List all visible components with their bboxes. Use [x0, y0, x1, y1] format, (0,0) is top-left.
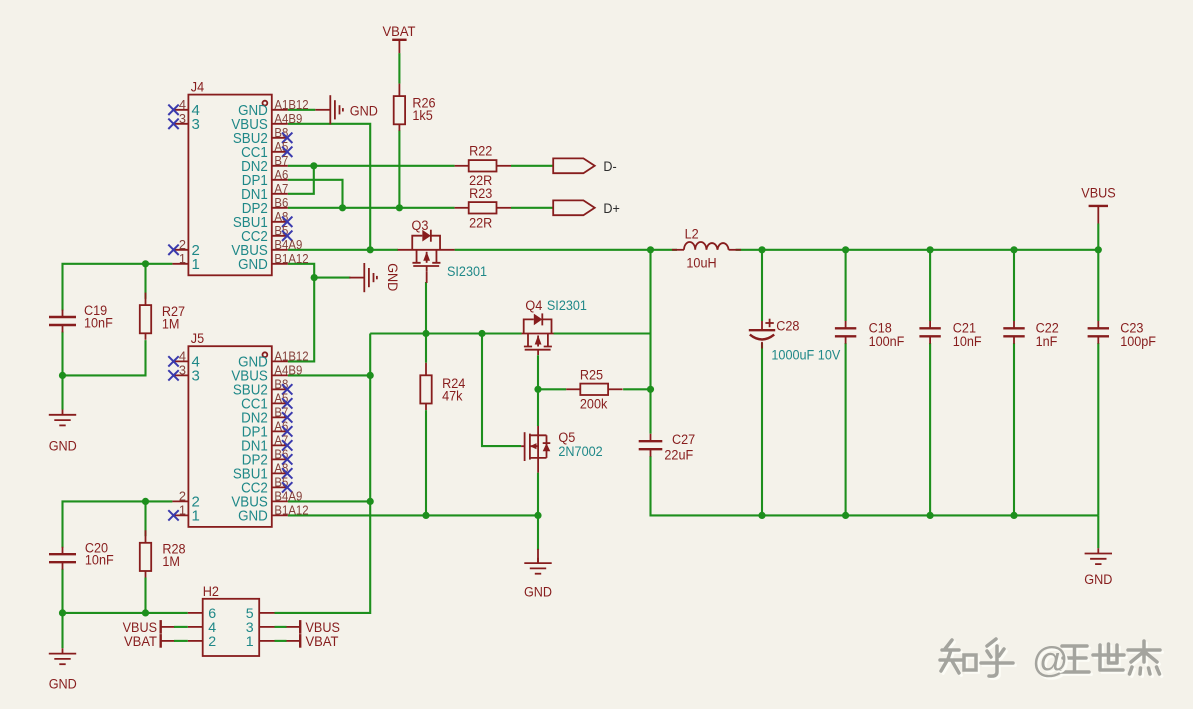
J5 pin A6 (DP1)	[242, 419, 293, 441]
J5 pin B8 (SBU2)	[233, 377, 293, 399]
wire D+ net : DP2 row to R23	[288, 207, 455, 209]
wire J4 A1B12 to GND symbol	[288, 109, 316, 111]
svg-text:D-: D-	[603, 159, 617, 175]
svg-text:2: 2	[179, 489, 186, 504]
J4 pin A5 (CC1)	[241, 139, 292, 161]
connector J4 body	[188, 79, 271, 275]
ground symbol below J4 (rotated)	[349, 263, 377, 292]
ground symbol under Q5	[537, 549, 539, 563]
junction	[59, 609, 66, 616]
H2 pin 6	[188, 606, 216, 622]
wire H2 pin2	[174, 640, 188, 642]
junction	[478, 330, 485, 337]
J5 pin A4B9 (VBUS)	[231, 363, 302, 385]
svg-text:22uF: 22uF	[664, 448, 693, 464]
wire capacitor column x=930.1 bottom	[929, 343, 931, 515]
svg-text:10nF: 10nF	[85, 553, 114, 569]
svg-text:100nF: 100nF	[869, 334, 905, 350]
svg-text:GND: GND	[384, 263, 400, 291]
capacitor C18 100nF	[835, 321, 856, 344]
junction	[647, 246, 654, 253]
wire R27 top	[144, 264, 146, 299]
svg-text:2: 2	[208, 634, 216, 650]
wire VBUS power stem	[1097, 224, 1099, 250]
wire J4 B1A12 GND to symbol and J5 A1B12	[288, 264, 314, 362]
global label D+	[553, 200, 620, 217]
svg-text:D+: D+	[603, 201, 620, 217]
resistor R28 1M	[140, 530, 186, 577]
junction	[422, 330, 429, 337]
wire Q3 drain to L2	[455, 249, 677, 251]
J4 pin 1 (shield)	[172, 251, 199, 273]
svg-text:H2: H2	[203, 584, 219, 600]
wire R28 bottom	[144, 578, 146, 613]
junction	[842, 246, 849, 253]
H2 pin 3	[246, 620, 275, 636]
svg-text:10nF: 10nF	[953, 334, 982, 350]
wire capacitor column x=1014.0 bottom	[1013, 343, 1015, 515]
svg-text:100pF: 100pF	[1120, 334, 1156, 350]
svg-text:4: 4	[179, 97, 186, 112]
svg-text:3: 3	[192, 367, 200, 384]
junction	[842, 512, 849, 519]
H2 pin 4	[188, 620, 216, 636]
junction	[142, 609, 149, 616]
wire gate row Q3/Q4	[370, 332, 522, 334]
svg-text:1k5: 1k5	[412, 108, 432, 124]
svg-text:3: 3	[179, 363, 186, 378]
junction	[367, 498, 374, 505]
no-connect J5 pin B5	[282, 482, 292, 492]
no-connect J5 pin A6	[282, 426, 292, 436]
no-connect J4 pin 4	[168, 105, 178, 115]
wire J4 B4A9 VBUS to Q3 source	[288, 249, 398, 251]
svg-text:GND: GND	[350, 104, 378, 120]
J5 pin 4 (shield)	[168, 349, 200, 371]
svg-text:1nF: 1nF	[1036, 334, 1058, 350]
wire J4 A4B9 VBUS down to rail	[288, 124, 370, 250]
svg-text:C28: C28	[776, 319, 799, 335]
junction	[422, 512, 429, 519]
wire capacitor column x=845.6 top	[845, 250, 847, 321]
J4 pin 3 (shield)	[168, 111, 200, 133]
svg-text:1: 1	[179, 503, 186, 518]
svg-text:R25: R25	[580, 368, 603, 384]
power flag VBUS at H2 pin4	[123, 620, 175, 636]
capacitor C22 1nF	[1003, 321, 1024, 344]
wire VBAT to R26	[398, 53, 400, 84]
transistor Q5 2N7002 (N-MOSFET)	[521, 426, 603, 473]
no-connect J5 pin A5	[282, 398, 292, 408]
wire capacitor column x=1014.0 top	[1013, 250, 1015, 321]
no-connect J5 pin 3	[168, 370, 178, 380]
capacitor C19 10nF	[49, 310, 76, 333]
junction	[534, 512, 541, 519]
wire capacitor column x=1098.3 bottom	[1097, 343, 1099, 515]
svg-text:SI2301: SI2301	[547, 298, 587, 314]
svg-text:B1A12: B1A12	[274, 251, 308, 266]
wire H2 pin3	[275, 626, 287, 628]
svg-text:VBAT: VBAT	[383, 24, 416, 40]
H2 pin 1	[246, 634, 275, 650]
svg-text:B7: B7	[274, 153, 288, 168]
J5 pin A1B12 (GND)	[238, 349, 309, 371]
svg-text:Q4: Q4	[525, 298, 542, 314]
no-connect J5 pin A8	[282, 468, 292, 478]
wire R25 row right	[623, 388, 650, 390]
resistor R25 200k	[566, 368, 622, 413]
wire D- net : DN2 row to R22	[288, 165, 455, 167]
wire output column x=650	[649, 250, 651, 434]
J4 pin A8 (SBU1)	[233, 209, 293, 231]
J4 pin A4B9 (VBUS)	[231, 111, 302, 133]
wire J5 B4A9 VBUS branch	[288, 500, 370, 502]
svg-text:SI2301: SI2301	[447, 264, 487, 280]
capacitor C21 10nF	[919, 321, 940, 344]
svg-text:A1B12: A1B12	[274, 349, 308, 364]
wire GND rail stem right	[1097, 515, 1099, 548]
J4 pin A1B12 (GND)	[238, 97, 309, 119]
wire R27 bottom row	[63, 340, 146, 375]
no-connect J4 pin A8	[282, 217, 292, 227]
svg-text:3: 3	[179, 111, 186, 126]
svg-text:VBAT: VBAT	[306, 634, 339, 650]
no-connect J4 pin 2	[168, 245, 178, 255]
svg-text:GND: GND	[238, 256, 268, 273]
junction	[1095, 246, 1102, 253]
capacitor C28 1000uF 10V (polarized)	[749, 319, 841, 364]
no-connect J5 pin 4	[168, 356, 178, 366]
svg-text:R22: R22	[469, 144, 492, 160]
svg-text:B4A9: B4A9	[274, 489, 302, 504]
svg-text:2N7002: 2N7002	[558, 444, 602, 460]
svg-text:J4: J4	[191, 79, 204, 95]
transistor Q4 SI2301 (P-MOSFET)	[522, 298, 587, 355]
ground symbol right	[1085, 548, 1112, 564]
ground symbol bottom left	[49, 648, 76, 664]
svg-text:VBAT: VBAT	[124, 634, 157, 650]
wire R28 top	[144, 501, 146, 536]
svg-text:C27: C27	[672, 432, 695, 448]
svg-text:A1B12: A1B12	[274, 97, 308, 112]
junction	[1010, 512, 1017, 519]
svg-text:10uH: 10uH	[686, 255, 716, 271]
junction	[927, 512, 934, 519]
wire J5 A4B9 VBUS branch	[288, 374, 370, 376]
power flag VBAT	[383, 24, 416, 53]
wire capacitor column x=1098.3 top	[1097, 250, 1099, 321]
no-connect J4 pin 3	[168, 119, 178, 129]
wire GND row left (J5 B1A12)	[288, 514, 538, 516]
power flag VBAT at H2 pin2	[124, 634, 175, 650]
svg-text:J5: J5	[191, 331, 204, 347]
wire H2 pin1	[275, 640, 287, 642]
J5 pin A8 (SBU1)	[233, 461, 293, 483]
svg-text:A4B9: A4B9	[274, 363, 302, 378]
svg-text:B4A9: B4A9	[274, 237, 302, 252]
junction	[367, 246, 374, 253]
wire J4 pin1 shield to C19/R27	[63, 264, 173, 311]
svg-text:VBUS: VBUS	[1081, 186, 1115, 202]
wire Q3 gate / R24 top	[425, 282, 427, 363]
svg-text:1M: 1M	[162, 554, 180, 570]
svg-text:3: 3	[192, 116, 200, 133]
resistor R27 1M	[140, 293, 185, 340]
wire GND row to H2 pin6	[63, 612, 188, 614]
no-connect J5 pin B7	[282, 412, 292, 422]
J4 pin B8 (SBU2)	[233, 125, 293, 147]
svg-text:@: @	[1032, 639, 1069, 680]
H2 pin 2	[188, 634, 216, 650]
no-connect J4 pin B5	[282, 231, 292, 241]
J5 pin 1 (shield)	[168, 503, 200, 525]
wire Q4 gate stem down	[537, 355, 539, 389]
junction	[310, 162, 317, 169]
wire capacitor column x=762.0 top	[761, 250, 763, 321]
wire R26 to D+ net	[398, 130, 400, 208]
wire J5 pin2 shield to C20/R28	[63, 501, 173, 547]
svg-text:1M: 1M	[162, 317, 180, 333]
power flag VBUS at H2 pin3	[286, 620, 340, 636]
J4 pin B7 (DN2)	[241, 153, 288, 175]
connector J5 body	[188, 331, 271, 527]
junction	[396, 204, 403, 211]
wire Q5 source to GND	[537, 473, 539, 550]
J4 pin B6 (DP2)	[242, 195, 289, 217]
wire R24 bottom to GND row	[425, 410, 427, 515]
svg-text:47k: 47k	[442, 389, 463, 405]
junction	[142, 260, 149, 267]
J4 pin A7 (DN1)	[241, 181, 288, 203]
svg-text:GND: GND	[1084, 572, 1112, 588]
wire C27 bottom to GND rail	[651, 456, 1099, 515]
svg-text:10nF: 10nF	[84, 315, 113, 331]
capacitor C23 100pF	[1088, 321, 1109, 344]
junction	[1010, 246, 1017, 253]
header H2 body	[203, 584, 260, 656]
svg-text:1: 1	[179, 251, 186, 266]
J4 pin B4A9 (VBUS)	[231, 237, 302, 259]
J5 pin 3 (shield)	[168, 363, 200, 385]
junction	[311, 274, 318, 281]
J5 pin B7 (DN2)	[241, 405, 292, 427]
J4 pin 4 (shield)	[168, 97, 200, 119]
junction	[142, 498, 149, 505]
resistor R24 47k	[420, 363, 465, 410]
svg-text:A7: A7	[274, 181, 288, 196]
junction	[367, 372, 374, 379]
resistor R23 22R	[455, 186, 511, 232]
ground symbol near J4 top (rotated)	[315, 95, 343, 124]
junction	[758, 246, 765, 253]
junction	[758, 512, 765, 519]
junction	[927, 246, 934, 253]
H2 pin 5	[246, 606, 275, 622]
wire H2 pin4	[174, 626, 188, 628]
wire C19 bottom to GND	[61, 332, 63, 410]
watermark zhihu @wangshijie	[940, 639, 1162, 682]
svg-text:1: 1	[246, 634, 254, 650]
junction	[339, 204, 346, 211]
transistor Q3 SI2301 (P-MOSFET)	[398, 218, 487, 283]
svg-text:GND: GND	[524, 584, 552, 600]
wire Q5 gate branch	[482, 334, 521, 447]
J5 pin B5 (CC2)	[241, 475, 292, 497]
no-connect J4 pin A5	[282, 147, 292, 157]
no-connect J5 pin B8	[282, 384, 292, 394]
wire DP1 branch to D+ net	[288, 180, 343, 208]
wire gate row corner down to H2 pin5	[275, 334, 371, 613]
capacitor C27 22uF	[639, 434, 663, 457]
wire R22 to D- label	[511, 165, 553, 167]
svg-text:2: 2	[179, 237, 186, 252]
J5 pin B6 (DP2)	[242, 447, 293, 469]
J5 pin A5 (CC1)	[241, 391, 292, 413]
junction	[534, 386, 541, 393]
resistor R26 1k5	[394, 84, 436, 131]
global label D-	[553, 158, 617, 175]
wire L2 to VBUS rail	[736, 249, 1099, 251]
wire Q4 gate junction to Q5 drain	[537, 389, 539, 426]
J5 pin B1A12 (GND)	[238, 503, 309, 525]
junction	[59, 372, 66, 379]
svg-text:GND: GND	[49, 676, 77, 692]
svg-text:1: 1	[192, 507, 200, 524]
svg-text:200k: 200k	[580, 396, 608, 412]
svg-text:4: 4	[179, 349, 186, 364]
J5 pin A7 (DN1)	[241, 433, 292, 455]
no-connect J4 pin B8	[282, 133, 292, 143]
capacitor C20 10nF	[49, 547, 76, 570]
J4 pin B5 (CC2)	[241, 223, 292, 245]
svg-text:A4B9: A4B9	[274, 111, 302, 126]
J4 pin B1A12 (GND)	[238, 251, 309, 273]
svg-text:1000uF 10V: 1000uF 10V	[771, 347, 840, 363]
svg-text:A6: A6	[274, 167, 288, 182]
wire DN1 branch to D- net	[288, 166, 314, 194]
svg-text:Q3: Q3	[412, 218, 429, 234]
no-connect J5 pin B6	[282, 454, 292, 464]
resistor R22 22R	[455, 144, 511, 189]
J5 pin 2 (shield)	[172, 489, 199, 511]
wire capacitor column x=930.1 top	[929, 250, 931, 321]
J4 pin 2 (shield)	[168, 237, 200, 259]
junction	[647, 386, 654, 393]
ground symbol under C19	[49, 410, 76, 426]
svg-text:B1A12: B1A12	[274, 503, 308, 518]
inductor L2 10uH	[672, 227, 741, 272]
wire GND stub at J4 bottom	[314, 277, 350, 279]
svg-text:22R: 22R	[469, 215, 492, 231]
svg-text:1: 1	[192, 256, 200, 273]
J4 pin A6 (DP1)	[242, 167, 289, 189]
svg-text:GND: GND	[49, 439, 77, 455]
power flag VBAT at H2 pin1	[286, 634, 339, 650]
svg-text:R23: R23	[469, 186, 492, 202]
wire Q4 drain to output column	[554, 332, 651, 334]
wire C20 bottom to GND net	[61, 569, 63, 649]
wire R25 row left	[538, 388, 566, 390]
no-connect J5 pin A7	[282, 440, 292, 450]
svg-text:GND: GND	[238, 507, 268, 524]
wire R23 to D+ label	[511, 207, 553, 209]
svg-text:B6: B6	[274, 195, 288, 210]
wire capacitor column x=845.6 bottom	[845, 343, 847, 515]
svg-text:L2: L2	[685, 227, 699, 243]
wire capacitor column x=762.0 bottom	[761, 343, 763, 515]
power flag VBUS right	[1081, 186, 1115, 224]
no-connect J5 pin 1	[168, 510, 178, 520]
J5 pin B4A9 (VBUS)	[231, 489, 302, 511]
